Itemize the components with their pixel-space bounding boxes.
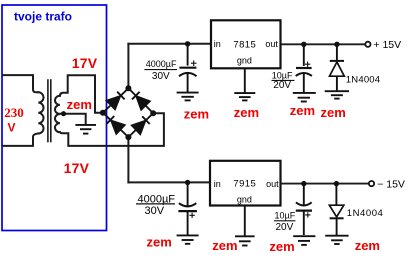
- ground C4: [293, 236, 315, 245]
- node bridge bottom: [125, 134, 131, 140]
- transformer core: [47, 80, 49, 142]
- svg-text:gnd: gnd: [237, 195, 252, 205]
- svg-text:out: out: [265, 39, 278, 49]
- node junction diode bottom: [334, 181, 339, 186]
- svg-text:7815: 7815: [233, 40, 256, 51]
- node bridge top: [125, 85, 131, 91]
- node bridge left: [100, 110, 106, 116]
- node junction 10uF bottom: [301, 181, 306, 186]
- svg-text:17V: 17V: [72, 55, 98, 71]
- wire secondary top to bridge AC1: [60, 75, 101, 113]
- node center tap dot: [61, 111, 66, 116]
- svg-text:1N4004: 1N4004: [347, 208, 384, 219]
- svg-text:zem: zem: [184, 106, 209, 121]
- wire 7815 out rail: [281, 43, 366, 45]
- capacitor C1 4000uF top: [179, 44, 197, 93]
- wire primary top: [3, 75, 39, 92]
- wire 7915 out rail: [281, 183, 370, 185]
- ground C3: [177, 235, 199, 243]
- transformer primary winding: [38, 92, 43, 133]
- svg-text:10µF: 10µF: [275, 211, 296, 221]
- op-amp U1 7815 regulator box: [211, 20, 281, 68]
- svg-text:30V: 30V: [152, 71, 170, 82]
- ground C2: [293, 93, 316, 102]
- bridge diode D4 (bottom to right): [132, 116, 150, 134]
- svg-text:20V: 20V: [273, 80, 291, 91]
- svg-text:gnd: gnd: [237, 55, 252, 65]
- svg-text:30V: 30V: [145, 205, 165, 217]
- wire bridge minus output down to rail: [127, 137, 129, 182]
- ground center tap: [75, 125, 96, 134]
- ground D6: [325, 236, 348, 244]
- svg-text:+ 15V: + 15V: [373, 39, 401, 51]
- svg-text:20V: 20V: [276, 222, 294, 233]
- bridge rectifier diamond: [103, 88, 153, 137]
- svg-text:V: V: [8, 120, 16, 134]
- wire secondary bottom to bridge AC2: [60, 113, 164, 146]
- op-amp U2 7915 regulator box: [210, 161, 281, 206]
- wire 7815 gnd pin: [244, 68, 246, 92]
- node bridge right: [150, 110, 156, 116]
- svg-text:in: in: [214, 179, 221, 189]
- node junction top rail C1: [185, 41, 190, 46]
- terminal -15V: [369, 181, 374, 186]
- svg-text:1N4004: 1N4004: [346, 74, 380, 85]
- wire 7915 gnd pin: [244, 206, 246, 236]
- wire center tap: [61, 114, 86, 125]
- ground 7915: [235, 236, 255, 245]
- svg-text:tvoje trafo: tvoje trafo: [14, 9, 72, 23]
- svg-text:zem: zem: [67, 97, 92, 112]
- wire primary bottom: [3, 134, 39, 146]
- diode D5 1N4004 top: [330, 44, 345, 91]
- ground D5: [325, 91, 349, 98]
- node junction diode top: [334, 42, 339, 47]
- svg-text:zem: zem: [212, 238, 237, 253]
- node junction 10uF top: [301, 42, 306, 47]
- svg-text:zem: zem: [290, 103, 315, 118]
- ground 7815: [234, 93, 255, 100]
- svg-text:in: in: [214, 39, 221, 49]
- bridge diode D3 (bottom to left): [107, 116, 125, 134]
- bridge diode D2 (right to top): [132, 92, 150, 110]
- ground C1: [177, 93, 199, 101]
- bridge diode D1 (lower-left to top): [107, 92, 125, 110]
- blue box (tvoje trafo frame): [2, 5, 107, 231]
- node junction bottom rail C3: [185, 180, 190, 185]
- wire bridge plus output up to rail: [127, 44, 129, 88]
- terminal +15V: [365, 42, 370, 47]
- diode D6 1N4004 bottom: [329, 184, 343, 235]
- capacitor C2 10uF top: [296, 44, 312, 92]
- capacitor C4 10uF bottom: [296, 184, 312, 235]
- svg-text:− 15V: − 15V: [377, 178, 405, 190]
- svg-text:zem: zem: [355, 238, 380, 253]
- transformer secondary winding: [55, 96, 60, 132]
- svg-text:zem: zem: [147, 235, 172, 250]
- capacitor C3 4000uF bottom: [178, 182, 197, 235]
- svg-text:230: 230: [4, 105, 24, 120]
- wire top rail to 7815 in: [128, 43, 211, 45]
- svg-text:zem: zem: [234, 105, 259, 120]
- svg-text:7915: 7915: [233, 179, 256, 190]
- svg-text:4000µF: 4000µF: [146, 59, 177, 69]
- svg-text:17V: 17V: [64, 160, 90, 176]
- wire bottom rail to 7915 in: [128, 181, 210, 183]
- svg-text:out: out: [266, 179, 279, 189]
- svg-text:zem: zem: [321, 105, 346, 120]
- svg-text:zem: zem: [269, 239, 294, 254]
